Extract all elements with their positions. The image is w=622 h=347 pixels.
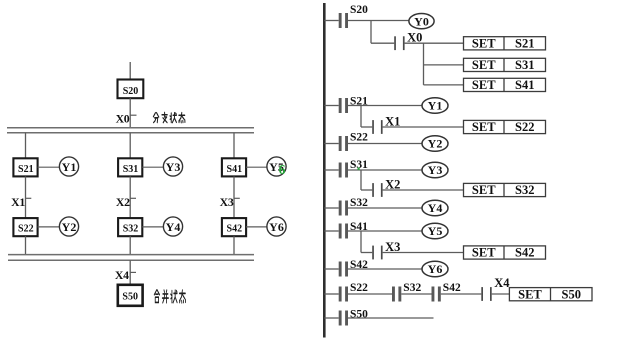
svg-text:S22: S22: [350, 132, 368, 144]
svg-text:Y6: Y6: [428, 262, 443, 276]
svg-text:Y1: Y1: [62, 160, 77, 174]
svg-text:S22: S22: [350, 282, 368, 294]
svg-text:X3: X3: [220, 195, 234, 209]
svg-text:S50: S50: [562, 287, 581, 301]
svg-text:SET: SET: [472, 120, 496, 134]
svg-text:X4: X4: [115, 268, 129, 282]
svg-text:S50: S50: [122, 292, 138, 303]
svg-text:X4: X4: [494, 276, 510, 290]
svg-text:S20: S20: [350, 4, 368, 16]
svg-text:S42: S42: [443, 282, 461, 294]
svg-text:S20: S20: [123, 86, 139, 97]
svg-text:Y1: Y1: [428, 99, 443, 113]
svg-text:X0: X0: [116, 111, 130, 125]
svg-text:6: 6: [279, 162, 286, 177]
svg-text:SET: SET: [472, 183, 496, 197]
svg-text:SET: SET: [472, 246, 496, 260]
svg-text:S22: S22: [515, 120, 534, 134]
svg-text:Y2: Y2: [62, 220, 77, 234]
svg-text:Y2: Y2: [428, 137, 443, 151]
svg-text:SET: SET: [472, 37, 496, 51]
svg-text:S31: S31: [123, 164, 139, 175]
svg-text:Y3: Y3: [428, 163, 443, 177]
svg-text:Y6: Y6: [269, 220, 284, 234]
svg-text:S42: S42: [515, 246, 534, 260]
svg-text:S41: S41: [515, 78, 534, 92]
svg-text:S41: S41: [227, 164, 243, 175]
svg-text:Y0: Y0: [414, 14, 429, 28]
svg-text:SET: SET: [472, 78, 496, 92]
svg-text:Y4: Y4: [166, 220, 181, 234]
svg-text:S32: S32: [350, 197, 368, 209]
svg-text:SET: SET: [518, 287, 542, 301]
svg-text:S21: S21: [18, 164, 34, 175]
svg-text:S32: S32: [403, 282, 421, 294]
svg-text:S32: S32: [515, 183, 534, 197]
svg-text:S50: S50: [350, 309, 368, 321]
svg-text:Y5: Y5: [428, 224, 443, 238]
svg-text:S32: S32: [123, 224, 139, 235]
svg-text:X2: X2: [116, 195, 130, 209]
svg-text:S42: S42: [227, 224, 243, 235]
svg-text:X1: X1: [11, 195, 25, 209]
svg-text:S22: S22: [18, 224, 34, 235]
svg-text:SET: SET: [472, 58, 496, 72]
svg-text:S31: S31: [515, 58, 534, 72]
svg-text:S21: S21: [515, 37, 534, 51]
svg-text:Y4: Y4: [428, 201, 443, 215]
svg-text:Y3: Y3: [166, 160, 181, 174]
